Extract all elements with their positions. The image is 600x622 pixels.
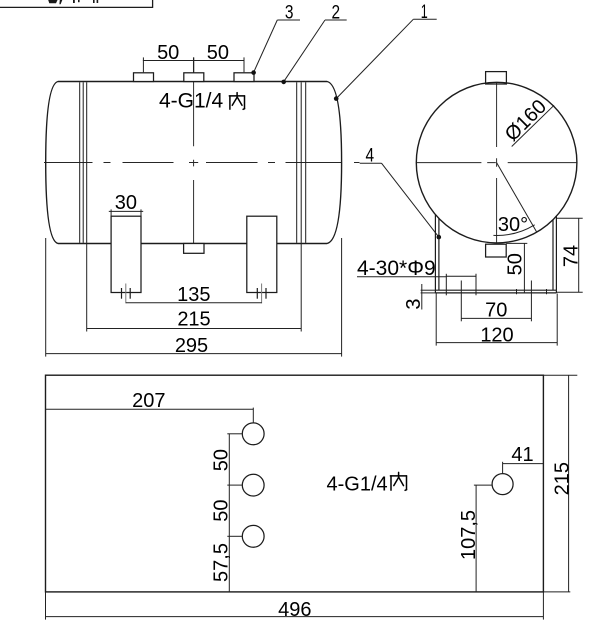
svg-text:50: 50 xyxy=(157,42,179,64)
svg-text:215: 215 xyxy=(177,308,210,330)
svg-text:295: 295 xyxy=(175,335,208,357)
svg-text:41: 41 xyxy=(511,444,533,466)
svg-text:57,5: 57,5 xyxy=(211,543,233,582)
svg-text:74: 74 xyxy=(561,245,583,267)
svg-text:50: 50 xyxy=(211,499,233,521)
svg-text:107,5: 107,5 xyxy=(458,510,480,560)
svg-text:215: 215 xyxy=(551,462,573,495)
svg-text:3: 3 xyxy=(285,3,294,24)
svg-text:70: 70 xyxy=(485,299,507,321)
svg-text:3: 3 xyxy=(403,298,425,309)
svg-text:30°: 30° xyxy=(498,214,528,236)
svg-text:120: 120 xyxy=(480,324,513,346)
svg-text:50: 50 xyxy=(211,449,233,471)
svg-text:4: 4 xyxy=(366,145,375,166)
svg-text:50: 50 xyxy=(207,42,229,64)
svg-text:30: 30 xyxy=(115,192,137,214)
svg-text:4-G1/4: 4-G1/4 xyxy=(327,474,388,496)
svg-text:50: 50 xyxy=(505,253,527,275)
svg-text:4-G1/4: 4-G1/4 xyxy=(159,90,224,113)
svg-text:207: 207 xyxy=(132,390,165,412)
svg-text:2: 2 xyxy=(332,3,341,24)
svg-text:135: 135 xyxy=(177,284,210,306)
svg-text:1: 1 xyxy=(421,2,428,23)
svg-text:496: 496 xyxy=(278,599,311,621)
